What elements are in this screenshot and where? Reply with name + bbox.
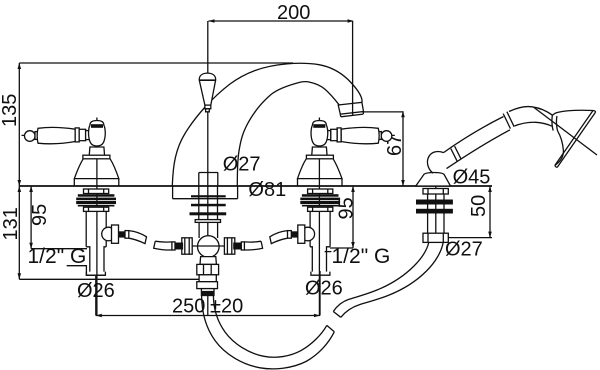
svg-text:95: 95	[336, 197, 358, 219]
svg-text:131: 131	[0, 207, 22, 240]
wire top extension line (spout height)	[19, 62, 293, 64]
left shank below deck	[76, 189, 129, 275]
svg-text:Ø27: Ø27	[445, 239, 483, 261]
elbow ball	[102, 227, 116, 241]
dimension 67	[362, 111, 403, 113]
handshower flexible hose upper piece	[333, 242, 443, 317]
svg-text:200: 200	[277, 2, 310, 24]
tee outlet tube	[199, 275, 216, 282]
handle body	[444, 117, 511, 169]
handle collar rings	[451, 146, 461, 161]
svg-text:Ø81: Ø81	[248, 179, 286, 201]
hose ferrule ring	[125, 231, 129, 239]
svg-text:1/2" G: 1/2" G	[28, 245, 87, 268]
dimension 95 left	[30, 186, 32, 249]
left connection hose	[129, 231, 183, 250]
neck ferrule	[503, 112, 514, 129]
node spout centerline	[207, 21, 209, 316]
tee right hex nut	[224, 238, 234, 254]
inlet end bead	[86, 272, 105, 276]
dimension 50	[448, 237, 492, 239]
spout outer curve	[172, 63, 362, 186]
svg-text:135: 135	[0, 94, 21, 127]
tee left hex nut	[182, 238, 192, 254]
handshower flexible hose lower piece	[202, 296, 335, 369]
right handle assembly (mirror)	[233, 118, 395, 316]
spout base column	[199, 173, 218, 187]
left handle assembly	[22, 118, 119, 316]
deck surface line	[19, 185, 492, 187]
lever body	[37, 127, 75, 144]
svg-text:Ø45: Ø45	[453, 167, 491, 189]
handle centerline	[96, 118, 98, 316]
dimension 250±20	[95, 276, 97, 316]
shower head face rim	[555, 111, 596, 168]
diverter knob	[199, 73, 216, 105]
handle hub	[89, 121, 106, 147]
lever neck rings	[75, 128, 79, 142]
mixer tee body below deck	[174, 222, 242, 295]
svg-text:1/2" G: 1/2" G	[332, 245, 391, 268]
handshower shank below deck	[416, 189, 453, 243]
dimension 200 top	[209, 20, 353, 22]
hose break cut 2	[333, 312, 341, 318]
hub stem	[89, 147, 104, 156]
svg-text:250: 250	[172, 296, 205, 318]
shower neck	[509, 107, 553, 127]
hose ferrule dark	[119, 231, 126, 237]
wire leader 1/2G left	[67, 266, 106, 276]
svg-text:Ø26: Ø26	[305, 278, 343, 300]
lever ball end	[25, 131, 36, 142]
escutcheon	[74, 159, 119, 179]
spout assembly	[172, 63, 363, 186]
spout inner curve	[237, 82, 339, 186]
wire bottom extension line (131 depth)	[19, 278, 199, 280]
handshower handle	[427, 107, 597, 174]
handle butt	[427, 152, 443, 174]
hose break cut 1	[327, 325, 335, 331]
svg-text:50: 50	[468, 195, 490, 217]
tee lower neck	[200, 257, 216, 265]
svg-text:95: 95	[29, 204, 51, 226]
spout outlet nozzle	[338, 102, 363, 114]
svg-text:Ø27: Ø27	[223, 154, 261, 176]
dimension Ø81	[172, 186, 174, 199]
tee lower hex nut	[197, 264, 219, 274]
elbow hex nut	[112, 225, 119, 243]
shower head joint rings	[552, 115, 558, 130]
handshower holder	[416, 173, 451, 244]
shower head bell	[552, 110, 593, 165]
dimension 135/131 vertical line	[18, 63, 20, 279]
middle shank below deck	[190, 186, 227, 222]
head axis line	[534, 108, 597, 156]
wire leader 1/2G right	[325, 251, 332, 253]
dimension 95 right	[352, 186, 354, 248]
hose crimp	[201, 289, 214, 296]
inlet tube	[85, 211, 87, 246]
